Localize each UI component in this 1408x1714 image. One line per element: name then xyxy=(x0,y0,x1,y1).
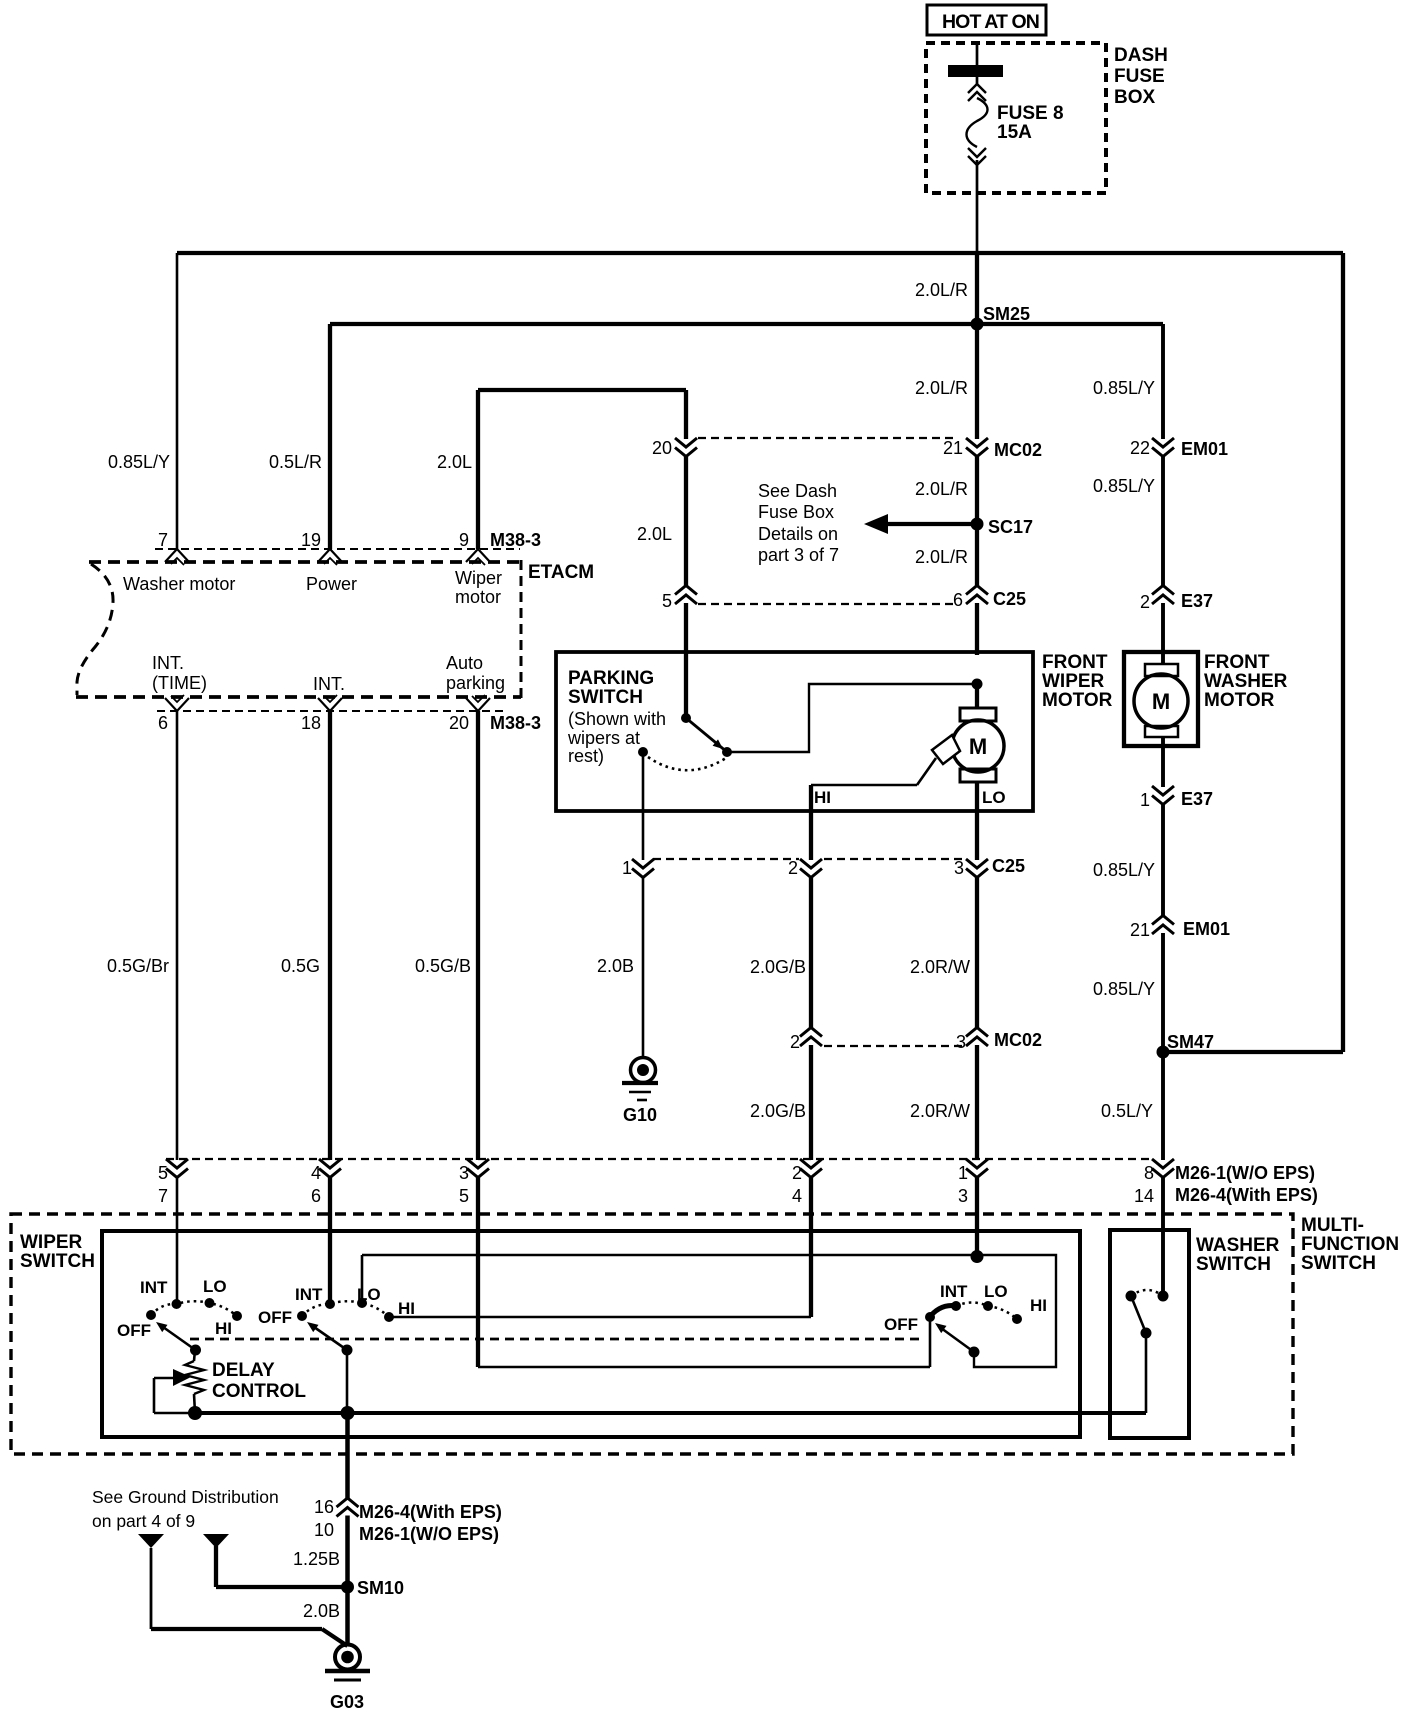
svg-text:MULTI-: MULTI- xyxy=(1301,1215,1364,1236)
svg-text:0.85L/Y: 0.85L/Y xyxy=(108,452,170,472)
svg-text:DELAY: DELAY xyxy=(212,1360,275,1381)
svg-text:E37: E37 xyxy=(1181,789,1213,809)
svg-text:OFF: OFF xyxy=(884,1315,918,1334)
svg-text:HI: HI xyxy=(814,788,831,807)
svg-text:15A: 15A xyxy=(997,122,1032,143)
svg-text:EM01: EM01 xyxy=(1183,919,1230,939)
svg-text:WASHER: WASHER xyxy=(1196,1235,1280,1256)
svg-text:2: 2 xyxy=(790,1032,800,1052)
svg-text:ETACM: ETACM xyxy=(528,562,594,583)
svg-text:WASHER: WASHER xyxy=(1204,671,1288,692)
svg-text:M26-1(W/O EPS): M26-1(W/O EPS) xyxy=(359,1524,499,1544)
svg-text:22: 22 xyxy=(1130,438,1150,458)
svg-text:3: 3 xyxy=(459,1163,469,1183)
svg-text:MC02: MC02 xyxy=(994,1030,1042,1050)
svg-text:1: 1 xyxy=(958,1163,968,1183)
svg-text:0.5L/R: 0.5L/R xyxy=(269,452,322,472)
svg-text:OFF: OFF xyxy=(117,1321,151,1340)
svg-text:MC02: MC02 xyxy=(994,440,1042,460)
svg-text:CONTROL: CONTROL xyxy=(212,1381,306,1402)
svg-text:Power: Power xyxy=(306,574,357,594)
svg-text:MOTOR: MOTOR xyxy=(1042,690,1113,711)
svg-text:Auto: Auto xyxy=(446,653,483,673)
svg-text:21: 21 xyxy=(943,438,963,458)
svg-text:SWITCH: SWITCH xyxy=(568,687,643,708)
svg-text:2.0L/R: 2.0L/R xyxy=(915,378,968,398)
svg-text:2.0L/R: 2.0L/R xyxy=(915,280,968,300)
svg-text:Wiper: Wiper xyxy=(455,568,502,588)
svg-text:6: 6 xyxy=(953,590,963,610)
svg-text:2.0R/W: 2.0R/W xyxy=(910,957,970,977)
svg-text:0.5G/B: 0.5G/B xyxy=(415,956,471,976)
svg-text:G03: G03 xyxy=(330,1692,364,1712)
svg-text:C25: C25 xyxy=(992,856,1025,876)
svg-text:BOX: BOX xyxy=(1114,87,1156,108)
svg-text:1: 1 xyxy=(1140,790,1150,810)
svg-text:MOTOR: MOTOR xyxy=(1204,690,1275,711)
svg-text:INT: INT xyxy=(295,1285,323,1304)
svg-text:5: 5 xyxy=(459,1186,469,1206)
svg-text:INT: INT xyxy=(940,1282,968,1301)
svg-text:FUSE 8: FUSE 8 xyxy=(997,103,1064,124)
svg-text:INT.: INT. xyxy=(313,674,345,694)
svg-text:wipers at: wipers at xyxy=(567,728,640,748)
svg-text:HI: HI xyxy=(215,1319,232,1338)
svg-text:WIPER: WIPER xyxy=(1042,671,1105,692)
svg-text:See Dash: See Dash xyxy=(758,481,837,501)
svg-text:0.5L/Y: 0.5L/Y xyxy=(1101,1101,1153,1121)
svg-text:7: 7 xyxy=(158,530,168,550)
svg-text:rest): rest) xyxy=(568,746,604,766)
svg-text:6: 6 xyxy=(158,713,168,733)
svg-text:G10: G10 xyxy=(623,1105,657,1125)
svg-text:0.85L/Y: 0.85L/Y xyxy=(1093,476,1155,496)
svg-text:FUSE: FUSE xyxy=(1114,66,1165,87)
svg-text:M26-4(With EPS): M26-4(With EPS) xyxy=(1175,1185,1318,1205)
svg-text:OFF: OFF xyxy=(258,1308,292,1327)
svg-text:E37: E37 xyxy=(1181,591,1213,611)
svg-text:2.0G/B: 2.0G/B xyxy=(750,957,806,977)
svg-text:parking: parking xyxy=(446,673,505,693)
svg-text:20: 20 xyxy=(652,438,672,458)
svg-text:2.0L/R: 2.0L/R xyxy=(915,479,968,499)
svg-text:FUNCTION: FUNCTION xyxy=(1301,1234,1399,1255)
svg-text:18: 18 xyxy=(301,713,321,733)
svg-text:SC17: SC17 xyxy=(988,517,1033,537)
svg-text:2: 2 xyxy=(1140,592,1150,612)
svg-text:0.5G/Br: 0.5G/Br xyxy=(107,956,169,976)
svg-text:LO: LO xyxy=(984,1282,1008,1301)
svg-text:2.0L/R: 2.0L/R xyxy=(915,547,968,567)
svg-text:C25: C25 xyxy=(993,589,1026,609)
svg-text:LO: LO xyxy=(203,1277,227,1296)
svg-text:16: 16 xyxy=(314,1497,334,1517)
svg-text:M: M xyxy=(1152,689,1170,714)
svg-text:0.5G: 0.5G xyxy=(281,956,320,976)
svg-text:0.85L/Y: 0.85L/Y xyxy=(1093,860,1155,880)
svg-text:2.0B: 2.0B xyxy=(597,956,634,976)
svg-text:1: 1 xyxy=(622,858,632,878)
svg-text:2.0B: 2.0B xyxy=(303,1601,340,1621)
svg-text:EM01: EM01 xyxy=(1181,439,1228,459)
svg-text:INT: INT xyxy=(140,1278,168,1297)
svg-text:Washer motor: Washer motor xyxy=(123,574,235,594)
svg-text:SM25: SM25 xyxy=(983,304,1030,324)
svg-text:4: 4 xyxy=(311,1163,321,1183)
svg-text:LO: LO xyxy=(357,1285,381,1304)
svg-text:21: 21 xyxy=(1130,920,1150,940)
svg-text:1.25B: 1.25B xyxy=(293,1549,340,1569)
svg-text:M: M xyxy=(969,734,987,759)
svg-text:DASH: DASH xyxy=(1114,45,1168,66)
svg-text:9: 9 xyxy=(459,530,469,550)
svg-text:LO: LO xyxy=(982,788,1006,807)
svg-text:SM47: SM47 xyxy=(1167,1032,1214,1052)
svg-text:4: 4 xyxy=(792,1186,802,1206)
svg-text:on part 4 of 9: on part 4 of 9 xyxy=(92,1511,195,1531)
svg-text:3: 3 xyxy=(956,1032,966,1052)
svg-text:2: 2 xyxy=(792,1163,802,1183)
svg-text:FRONT: FRONT xyxy=(1204,652,1270,673)
svg-text:PARKING: PARKING xyxy=(568,668,654,689)
svg-text:14: 14 xyxy=(1134,1186,1154,1206)
svg-text:WIPER: WIPER xyxy=(20,1232,83,1253)
svg-text:SM10: SM10 xyxy=(357,1578,404,1598)
svg-text:2.0L: 2.0L xyxy=(437,452,472,472)
svg-text:3: 3 xyxy=(954,858,964,878)
svg-text:20: 20 xyxy=(449,713,469,733)
svg-text:SWITCH: SWITCH xyxy=(1196,1254,1271,1275)
svg-text:2.0G/B: 2.0G/B xyxy=(750,1101,806,1121)
svg-text:(Shown with: (Shown with xyxy=(568,709,666,729)
svg-text:5: 5 xyxy=(158,1163,168,1183)
svg-text:10: 10 xyxy=(314,1520,334,1540)
svg-text:2.0R/W: 2.0R/W xyxy=(910,1101,970,1121)
svg-text:M26-4(With EPS): M26-4(With EPS) xyxy=(359,1502,502,1522)
svg-text:3: 3 xyxy=(958,1186,968,1206)
svg-text:2.0L: 2.0L xyxy=(637,524,672,544)
svg-text:SWITCH: SWITCH xyxy=(1301,1253,1376,1274)
svg-text:8: 8 xyxy=(1144,1163,1154,1183)
svg-text:HI: HI xyxy=(398,1299,415,1318)
svg-text:0.85L/Y: 0.85L/Y xyxy=(1093,979,1155,999)
svg-text:(TIME): (TIME) xyxy=(152,673,207,693)
svg-text:part 3 of 7: part 3 of 7 xyxy=(758,545,839,565)
svg-text:Details on: Details on xyxy=(758,524,838,544)
svg-text:19: 19 xyxy=(301,530,321,550)
svg-text:2: 2 xyxy=(788,858,798,878)
svg-text:6: 6 xyxy=(311,1186,321,1206)
svg-text:M38-3: M38-3 xyxy=(490,713,541,733)
svg-text:5: 5 xyxy=(662,591,672,611)
svg-text:7: 7 xyxy=(158,1186,168,1206)
svg-text:motor: motor xyxy=(455,587,501,607)
svg-text:Fuse Box: Fuse Box xyxy=(758,502,834,522)
svg-text:M26-1(W/O EPS): M26-1(W/O EPS) xyxy=(1175,1163,1315,1183)
svg-text:M38-3: M38-3 xyxy=(490,530,541,550)
svg-text:FRONT: FRONT xyxy=(1042,652,1108,673)
svg-text:0.85L/Y: 0.85L/Y xyxy=(1093,378,1155,398)
svg-text:SWITCH: SWITCH xyxy=(20,1251,95,1272)
svg-text:HOT AT ON: HOT AT ON xyxy=(942,11,1039,33)
svg-text:HI: HI xyxy=(1030,1296,1047,1315)
svg-text:INT.: INT. xyxy=(152,653,184,673)
svg-text:See Ground Distribution: See Ground Distribution xyxy=(92,1487,279,1507)
